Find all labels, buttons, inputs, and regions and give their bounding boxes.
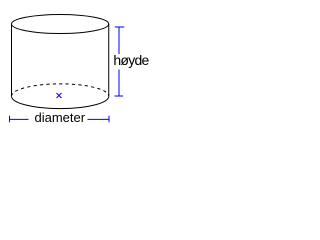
height dimension stem upper [118,27,120,54]
wire left side of cylinder [11,24,13,96]
diameter dimension right segment [88,118,110,120]
cylinder bottom front arc [12,96,109,108]
cylinder bottom back arc (hidden, dashed) [12,84,109,96]
wire right side of cylinder [108,24,110,96]
svg-text:høyde: høyde [113,52,149,68]
height dimension top bar [115,26,125,28]
height dimension bottom bar [115,95,124,97]
diameter dimension left tick [9,116,11,122]
height dimension stem lower [118,70,120,97]
diameter dimension left segment [10,118,29,120]
node center mark x [57,93,62,98]
cylinder top ellipse [12,15,109,34]
svg-text:diameter: diameter [35,110,86,125]
diameter dimension right tick [108,116,110,122]
